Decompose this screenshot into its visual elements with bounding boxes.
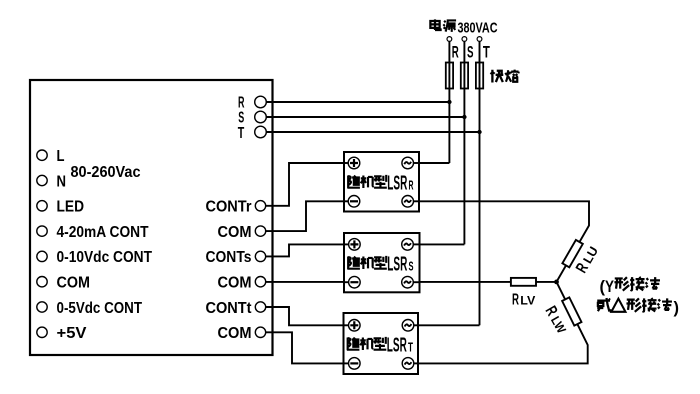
svg-text:): )	[674, 298, 680, 317]
svg-text:LED: LED	[57, 199, 85, 216]
svg-text:CONTt: CONTt	[206, 300, 253, 317]
svg-text:0-10Vdc CONT: 0-10Vdc CONT	[57, 249, 153, 266]
svg-text:4-20mA CONT: 4-20mA CONT	[57, 224, 149, 241]
svg-text:LSR: LSR	[387, 172, 407, 195]
svg-text:0-5Vdc CONT: 0-5Vdc CONT	[57, 300, 143, 317]
svg-text:+5V: +5V	[57, 325, 87, 342]
svg-text:R: R	[452, 43, 459, 62]
svg-text:380VAC: 380VAC	[458, 19, 498, 36]
svg-text:R: R	[512, 291, 519, 308]
svg-text:CONTr: CONTr	[206, 199, 252, 216]
svg-text:LSR: LSR	[387, 253, 407, 276]
svg-text:N: N	[57, 173, 67, 190]
svg-text:S: S	[467, 43, 474, 62]
svg-text:COM: COM	[218, 224, 252, 241]
svg-text:LSR: LSR	[387, 334, 407, 357]
svg-text:L: L	[57, 148, 65, 165]
svg-text:T: T	[238, 125, 245, 142]
svg-text:Y: Y	[605, 277, 615, 296]
svg-text:R: R	[409, 179, 414, 193]
svg-text:S: S	[409, 260, 414, 274]
svg-text:T: T	[483, 43, 490, 62]
svg-text:COM: COM	[57, 275, 91, 292]
svg-text:CONTs: CONTs	[206, 249, 252, 266]
svg-text:80-260Vac: 80-260Vac	[71, 164, 141, 181]
svg-text:LV: LV	[520, 293, 535, 307]
svg-text:T: T	[408, 341, 413, 355]
svg-text:S: S	[238, 110, 244, 127]
svg-text:COM: COM	[218, 275, 252, 292]
svg-text:COM: COM	[218, 325, 252, 342]
